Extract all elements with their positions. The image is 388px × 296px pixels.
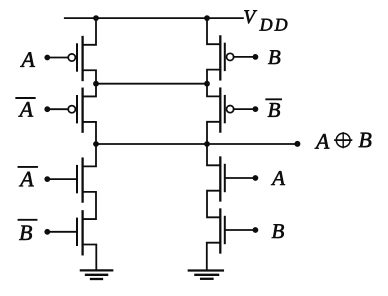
terminal dot A input (NMOS right) <box>253 175 259 181</box>
wire: Q1 drain lead to left mid node <box>83 70 96 83</box>
wire: Q2 drain lead down to output node <box>83 122 96 144</box>
terminal dot output <box>294 141 300 147</box>
wire: VDD top rail <box>65 17 243 19</box>
wire: gate stub of Q1 <box>47 57 68 59</box>
label Bbar (PMOS right) <box>268 103 280 117</box>
node: VDD junction left <box>93 15 99 21</box>
wire: Q4 drain lead down to output node <box>207 122 220 144</box>
label Bbar (NMOS left) <box>19 225 32 239</box>
node: left mid junction <box>93 81 99 87</box>
transistor Q3 PMOS B: gate bubble <box>227 53 234 60</box>
transistor Q4 PMOS Bbar: gate bubble <box>227 106 234 113</box>
wire: left mid node down to Q2 source lead <box>83 84 96 97</box>
wire: output node down to Q5 drain lead <box>83 144 96 166</box>
label A (PMOS left) <box>20 52 35 67</box>
wire: Q5 source lead down to Q6 drain lead <box>83 192 96 219</box>
wire: gate stub of Q5 <box>47 178 76 180</box>
terminal dot Abar input (NMOS left) <box>44 176 50 182</box>
transistor Q5 NMOS Abar: gate plate <box>76 166 78 192</box>
wire: output node down to Q7 drain lead <box>207 144 220 165</box>
terminal dot B input (PMOS right) <box>253 54 259 60</box>
wire: gate stub of Q2 <box>47 108 68 110</box>
wire: VDD rail down to Q1 source lead <box>83 18 96 45</box>
terminal dot A input (PMOS left) <box>44 55 50 61</box>
transistor Q8 NMOS B: channel <box>219 210 221 253</box>
wire: VDD rail down to Q3 source lead <box>207 18 220 44</box>
wire: middle cross wire <box>96 83 207 85</box>
transistor Q7 NMOS A: channel <box>219 158 221 201</box>
node: VDD junction right <box>204 15 210 21</box>
terminal dot Bbar input (PMOS right) <box>253 106 259 112</box>
terminal dot Abar input (PMOS left) <box>44 106 50 112</box>
wire: Q8 source lead down to ground <box>207 243 221 271</box>
wire: Q3 drain lead to right mid node <box>207 70 220 84</box>
transistor Q6 NMOS Bbar: channel <box>81 211 83 254</box>
transistor Q2 PMOS Abar: gate plate <box>76 96 78 122</box>
transistor Q3 PMOS B: gate plate <box>224 44 226 70</box>
wire: gate stub of Q7 <box>226 177 256 179</box>
node: right mid junction <box>204 81 210 87</box>
transistor Q5 NMOS Abar: channel <box>81 159 83 202</box>
transistor Q1 PMOS A: gate bubble <box>68 54 75 61</box>
wire: gate stub of Q3 <box>234 56 256 58</box>
wire: gate stub of Q6 <box>47 231 76 233</box>
transistor Q8 NMOS B: gate plate <box>224 217 226 243</box>
node: output junction right <box>204 141 210 147</box>
transistor Q2 PMOS Abar: channel <box>81 89 83 132</box>
label A (NMOS right) <box>271 171 285 185</box>
terminal dot Bbar input (NMOS left) <box>44 229 50 235</box>
transistor Q4 PMOS Bbar: gate plate <box>224 96 226 122</box>
label B (NMOS right) <box>272 224 284 238</box>
wire: output wire <box>96 143 297 145</box>
wire: right mid node down to Q4 source lead <box>207 84 220 97</box>
transistor Q6 NMOS Bbar: gate plate <box>76 219 78 245</box>
wire: gate stub of Q8 <box>226 229 256 231</box>
label A xor B output <box>315 134 330 149</box>
wire: Q7 source lead down to Q8 drain lead <box>207 191 220 218</box>
transistor Q7 NMOS A: gate plate <box>224 165 226 191</box>
ground symbol right <box>189 269 223 271</box>
label Abar (NMOS left) <box>19 172 34 187</box>
node: output junction left <box>93 141 99 147</box>
label B (PMOS right) <box>268 50 280 64</box>
label Abar (PMOS left) <box>18 102 33 117</box>
transistor Q4 PMOS Bbar: channel <box>219 89 221 132</box>
terminal dot B input (NMOS right) <box>253 227 259 233</box>
transistor Q1 PMOS A: channel <box>81 37 83 80</box>
ground symbol left <box>81 269 112 271</box>
wire: Q6 source lead down to ground <box>83 245 97 271</box>
transistor Q3 PMOS B: channel <box>219 36 221 79</box>
wire: gate stub of Q4 <box>234 108 256 110</box>
transistor Q1 PMOS A: gate plate <box>76 44 78 70</box>
label VDD <box>244 10 257 23</box>
transistor Q2 PMOS Abar: gate bubble <box>68 106 75 113</box>
